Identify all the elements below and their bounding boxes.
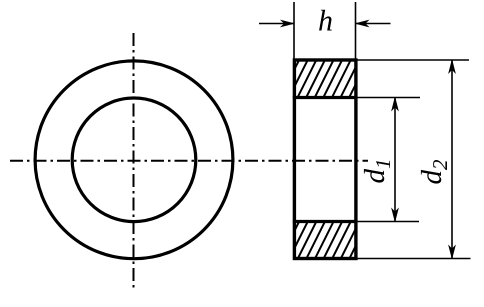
h dimension line right segment (356, 23, 391, 25)
label d1 (364, 161, 390, 183)
vertical centerline (dash-dot, front view) (133, 33, 135, 291)
hole top edge (section) (293, 96, 358, 99)
h dimension arrow right (points left) (356, 20, 369, 27)
d2 extension line top (357, 59, 469, 61)
d2 extension line bottom (357, 258, 471, 260)
d1 extension line top (357, 97, 420, 99)
horizontal centerline (dash-dot through both views) (10, 160, 368, 162)
d1 arrow down (392, 209, 399, 222)
label d2 (421, 160, 447, 184)
d2 arrow down (449, 246, 456, 259)
d1 arrow up (392, 98, 399, 111)
hatching top band (271, 59, 377, 99)
hatching bottom band (272, 219, 378, 259)
d1 extension line bottom (357, 221, 419, 223)
h dimension arrow left (points right) (281, 20, 294, 27)
section outline rectangle (294, 60, 356, 259)
h extension line right (355, 2, 357, 60)
h dimension line left segment (259, 23, 294, 25)
inner circle (washer hole, front view) (72, 98, 196, 222)
d1 dimension line (394, 98, 396, 222)
hole bottom edge (section) (293, 220, 358, 223)
label h (319, 10, 332, 31)
h extension line left (293, 2, 295, 60)
d2 dimension line (451, 60, 453, 259)
outer circle (washer outside diameter, front view) (35, 61, 233, 259)
d2 arrow up (449, 60, 456, 73)
